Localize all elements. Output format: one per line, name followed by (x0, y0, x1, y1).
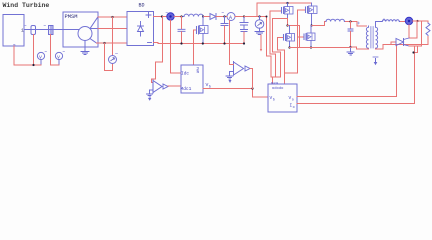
wire secondary bottom (376, 45, 389, 50)
mosfet M2 (298, 9, 306, 11)
ground probe (255, 32, 264, 35)
diode D boost (210, 14, 216, 20)
svg-text:BD: BD (139, 3, 145, 9)
wire turbine bottom to probes (14, 46, 41, 65)
svg-text:1: 1 (21, 28, 24, 34)
wire sense m1 (273, 19, 281, 78)
tick marks (25, 26, 65, 52)
ground comparator (229, 72, 231, 76)
voltage probe Vdc (259, 17, 261, 20)
inductor Lo (381, 20, 400, 22)
ammeter A (227, 13, 235, 21)
comparator U2 (152, 80, 154, 93)
voltmeter probe V1 (37, 52, 44, 59)
diode symbol inside BD (140, 22, 142, 37)
wire Vo feedback (297, 46, 397, 97)
node boost cap tap (180, 15, 182, 17)
wire bus to riser (244, 16, 267, 18)
node bus corner (266, 16, 268, 18)
comparator U1 (233, 62, 235, 76)
phase a lead (90, 18, 98, 29)
controller block Mdc2 (268, 84, 297, 112)
ground comparator U2 (149, 90, 151, 94)
arrow flag blue (229, 80, 232, 83)
wire ammeter output (230, 21, 234, 65)
boost IGBT Q1 (194, 30, 197, 65)
svg-text:b: b (273, 97, 275, 102)
mosfet M3 (278, 37, 284, 39)
voltmeter probe V2 (55, 52, 62, 59)
svg-text:PMSM: PMSM (65, 14, 78, 20)
wire primary bottom (352, 47, 369, 49)
wire phase c (97, 42, 128, 44)
svg-text:o: o (293, 106, 295, 110)
wire sensor to L (174, 16, 181, 18)
svg-text:o: o (292, 98, 294, 102)
plus label (146, 13, 151, 18)
minus label (148, 42, 152, 44)
capacitor Cdc (224, 17, 226, 24)
node probe tap (258, 15, 260, 17)
node boost node (202, 15, 204, 17)
wire gate m3 drop (278, 38, 285, 74)
wire Idc sense down (171, 20, 182, 73)
node phase a tap (111, 16, 113, 18)
wire jog to block (271, 77, 281, 84)
resistor RL (426, 23, 430, 37)
capacitor Cb (350, 22, 352, 29)
wind turbine block (3, 15, 24, 47)
wire lower bus (290, 47, 351, 49)
svg-text:Idc: Idc (181, 71, 189, 77)
svg-text:MdcB: MdcB (271, 81, 278, 85)
svg-text:Wind Turbine: Wind Turbine (3, 2, 50, 9)
buffer arrow U2 out (163, 84, 168, 89)
wire Vdc sense down (152, 17, 163, 83)
wire secondary top (376, 22, 382, 27)
inductor L1 (183, 14, 204, 16)
node dclink cap (223, 15, 225, 17)
PMSM machine block (63, 12, 98, 47)
wire BD+ out (154, 16, 167, 18)
capacitor C1 (181, 17, 183, 29)
svg-text:Mdc1: Mdc1 (181, 86, 192, 92)
svg-text:PWM: PWM (196, 67, 200, 73)
ground flag arrow (375, 59, 377, 63)
wire Vb output (203, 89, 268, 98)
svg-text:A: A (229, 15, 232, 21)
wire shaft (24, 29, 79, 31)
wire gate riser g1 (270, 11, 276, 77)
wire leg2 mid to L ac (312, 22, 327, 26)
machine ground (84, 41, 86, 52)
phase c lead (90, 39, 97, 44)
dc negative rail (154, 43, 245, 44)
svg-text:ododo: ododo (272, 86, 284, 91)
inductor Lac (326, 19, 345, 21)
current sensor Io (405, 17, 412, 24)
voltage probe Vab (109, 56, 117, 64)
ground hb (350, 47, 352, 52)
wire gate riser g2 (285, 10, 298, 84)
buffer arrow U1 out (245, 66, 250, 71)
current sensor Idc (167, 13, 174, 20)
controller block Mdc1 (181, 65, 203, 93)
wire M1 source (273, 19, 288, 26)
wire sensor2 output (51, 35, 60, 66)
phase b lead (90, 28, 98, 30)
node Vdc tap (161, 15, 163, 17)
wire sensor1 output (33, 35, 35, 66)
mosfet M4 (298, 36, 305, 38)
wire phase b (98, 28, 127, 30)
speed sensor W1 (31, 26, 36, 35)
wire leg1 mid (288, 26, 300, 48)
wire comparator out (250, 68, 253, 70)
rectifier mosfet Q5 (409, 21, 417, 38)
wire phase a (98, 16, 127, 18)
capacitor C2a (243, 17, 245, 23)
mosfet M1 (270, 10, 282, 12)
wire flag (260, 35, 262, 50)
wire Io feedback (297, 47, 415, 104)
transformer TX (366, 26, 368, 49)
riser to top bus (257, 3, 312, 17)
wire probe loop (112, 17, 114, 56)
junction (32, 64, 34, 66)
node split caps (243, 15, 245, 17)
node phase c tap (103, 42, 105, 44)
wire bus corner down (267, 17, 272, 78)
torque sensor T1 (49, 26, 54, 35)
capacitor C2b (241, 30, 248, 32)
